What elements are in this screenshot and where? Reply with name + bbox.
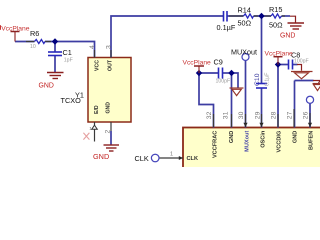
svg-text:TCXO: TCXO xyxy=(61,96,82,105)
svg-text:VccPlane: VccPlane xyxy=(183,60,212,67)
svg-text:0.1µF: 0.1µF xyxy=(264,73,270,86)
svg-text:27: 27 xyxy=(287,111,294,119)
svg-text:MUXout: MUXout xyxy=(231,47,257,56)
svg-text:VccPlane: VccPlane xyxy=(265,51,294,58)
svg-text:10: 10 xyxy=(30,44,36,50)
svg-text:BUFEN: BUFEN xyxy=(309,131,315,150)
svg-text:R15: R15 xyxy=(269,5,282,14)
svg-text:GND: GND xyxy=(293,131,299,143)
svg-text:VCCFRAC: VCCFRAC xyxy=(213,131,219,158)
svg-text:GND: GND xyxy=(106,102,112,114)
svg-text:26: 26 xyxy=(303,111,310,119)
svg-text:3: 3 xyxy=(105,45,112,49)
svg-text:2: 2 xyxy=(105,130,112,134)
svg-text:50Ω: 50Ω xyxy=(269,21,283,30)
svg-text:100pF: 100pF xyxy=(294,58,309,64)
svg-text:CLK: CLK xyxy=(135,154,149,163)
svg-text:VCCDIG: VCCDIG xyxy=(277,131,283,153)
svg-text:OSCin: OSCin xyxy=(261,130,267,148)
svg-text:CLK: CLK xyxy=(187,156,199,162)
svg-text:C10: C10 xyxy=(254,73,261,86)
svg-text:GND: GND xyxy=(39,83,54,90)
svg-text:VccPlane: VccPlane xyxy=(1,25,30,32)
svg-text:R14: R14 xyxy=(238,6,251,15)
svg-text:R6: R6 xyxy=(30,29,39,38)
svg-text:29: 29 xyxy=(254,111,261,119)
svg-text:30: 30 xyxy=(238,111,245,119)
svg-text:OUT: OUT xyxy=(108,59,114,71)
svg-text:C1: C1 xyxy=(63,48,72,57)
svg-text:GND: GND xyxy=(229,131,235,143)
svg-text:50Ω: 50Ω xyxy=(238,19,252,28)
svg-text:E/D: E/D xyxy=(94,105,100,114)
svg-text:MUXout: MUXout xyxy=(245,131,251,152)
svg-text:C9: C9 xyxy=(214,58,223,67)
svg-text:GND: GND xyxy=(93,152,109,161)
svg-text:28: 28 xyxy=(271,111,278,119)
svg-text:1pF: 1pF xyxy=(64,57,73,63)
svg-text:1: 1 xyxy=(89,126,92,132)
svg-text:4: 4 xyxy=(89,45,96,49)
svg-text:31: 31 xyxy=(222,111,229,119)
svg-text:1: 1 xyxy=(170,151,173,157)
svg-text:GND: GND xyxy=(280,33,295,40)
svg-text:100pF: 100pF xyxy=(216,78,231,84)
svg-text:0.1µF: 0.1µF xyxy=(217,23,236,32)
svg-text:VCC: VCC xyxy=(94,60,100,71)
svg-text:32: 32 xyxy=(206,111,213,119)
